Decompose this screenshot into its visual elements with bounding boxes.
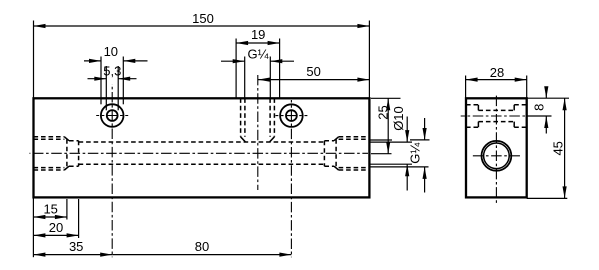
svg-text:50: 50 [306,64,320,79]
svg-text:19: 19 [251,27,265,42]
top port thread hidden lines [241,98,275,137]
side top edge extension line [527,97,569,99]
cross-hole shoulder verticals [478,105,514,127]
mounting hole 2 counterbore circle [280,104,303,127]
dimension 19 text [251,27,265,42]
left port thread lines [34,137,65,170]
dimension 5,3 line [88,77,137,81]
dimension 8 arrows [544,86,548,133]
label G1/4 right text [407,143,422,164]
dimension 10 line [84,59,148,63]
side view body outline [466,98,527,197]
dimension 150 line [34,24,370,28]
dimension 28 line [466,78,527,82]
label G1/4 top text [248,46,269,61]
hole 1 horizontal crosshair [96,115,128,117]
dimension 19 line [236,41,280,45]
dimension 25 line [386,98,390,153]
top port centerline [257,75,259,190]
dimension 5,3 text [103,64,121,79]
dimension 45 line [563,98,567,198]
cross-hole counterbore hidden lines [466,105,527,127]
dimension 50 text [306,64,320,79]
dimension 10 extension lines [101,57,123,105]
end port thread circle outer [482,141,512,171]
dimension 150 text [192,11,214,26]
side bottom edge extension line [527,197,568,199]
label G1/4 top arrows [221,59,294,63]
end port horizontal crosshair [470,155,522,157]
dimension Ø10 text [391,106,406,131]
dimension 15 text [43,202,57,217]
svg-text:150: 150 [192,11,214,26]
dimension 10 text [104,44,118,59]
svg-text:25: 25 [375,105,390,119]
dimension 28 extension lines [466,76,527,99]
side view vertical centerline [495,94,497,204]
dimension 25 extension lines [371,98,401,153]
label G1/4 top extension lines [245,57,271,99]
dimension 45 text [551,141,566,155]
dimension 20 line [33,233,78,237]
dimension 28 text [490,65,504,80]
cross-hole bore hidden lines [478,110,514,121]
dimension 5,3 extension lines [106,66,118,110]
dimension 150 extension lines [34,21,370,99]
dimension 15 extension line [66,199,68,220]
svg-text:G¼: G¼ [248,46,269,61]
dimension 25 text [375,105,390,119]
front view body outline [34,98,370,197]
left edge extension line below [32,197,34,257]
svg-text:35: 35 [69,239,83,254]
left port chamfer [64,137,69,170]
svg-text:Ø10: Ø10 [391,106,406,131]
svg-text:5,3: 5,3 [103,64,121,79]
right port end verticals [324,139,336,167]
mounting hole 1 counterbore circle [101,104,124,127]
hole 2 vertical centerline [290,100,292,257]
label G1/4 right arrows [423,118,427,193]
dimension 8 text [531,104,546,111]
dimension 19 extension lines [236,39,280,99]
dimension 35 line [33,253,112,257]
mounting hole 2 bore circle [286,110,297,121]
svg-text:15: 15 [43,202,57,217]
left port end verticals [67,139,79,167]
main bore centerline [30,152,369,154]
dimension 50 line [258,78,369,82]
dimension 35 text [69,239,83,254]
left port drill lines [69,141,79,167]
svg-text:G¼: G¼ [407,143,422,164]
dimension Ø10 extension lines [371,142,413,164]
top port chamfer [241,137,275,142]
right port drill lines [324,141,334,167]
dimension 20 text [49,220,63,235]
svg-text:45: 45 [551,141,566,155]
right port chamfer [334,137,339,170]
dimension 80 line [112,253,291,257]
hole 2 horizontal crosshair [275,115,307,117]
right port thread lines [339,137,370,170]
dimension 15 line [33,215,67,219]
svg-text:20: 20 [49,220,63,235]
mounting hole 1 bore circle [107,110,118,121]
cross-hole axis centerline [461,115,532,117]
svg-text:28: 28 [490,65,504,80]
svg-text:8: 8 [531,104,546,111]
end port thread circle inner [484,143,510,169]
label G1/4 right extension lines [371,140,430,167]
dimension 20 extension line [78,199,80,238]
dimension 80 text [195,239,209,254]
dimension Ø10 arrows [405,117,409,191]
main bore Ø10 hidden lines [79,142,325,164]
svg-text:80: 80 [195,239,209,254]
hole 1 vertical centerline [111,84,113,257]
cross-hole axis extension line [527,115,552,117]
svg-text:10: 10 [104,44,118,59]
